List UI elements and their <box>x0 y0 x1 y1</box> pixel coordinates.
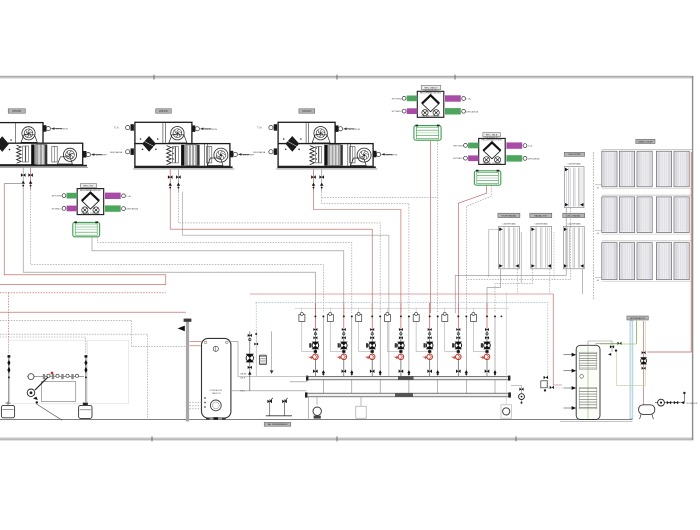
fan coil FC2 below HRV R2 <box>414 126 441 141</box>
svg-text:DESCARGA: DESCARGA <box>110 151 123 154</box>
expansion/safety assembly B <box>85 355 87 402</box>
pump group G5 on manifold <box>429 303 431 330</box>
svg-text:EXTRACC.: EXTRACC. <box>392 110 403 113</box>
svg-text:STOVE RADIAD.: STOVE RADIAD. <box>501 214 517 217</box>
HRV R3 (second roof recuperator) <box>479 138 506 164</box>
AHU U3 coil valve stack <box>313 170 315 192</box>
AHU U3 right upper port <box>335 125 338 131</box>
SAL. REFRIGERADOR label <box>264 422 291 426</box>
small tank T2 <box>79 405 92 418</box>
AHU U3 (third air handling unit) <box>278 122 335 143</box>
pipes from tank top to ACS riser <box>588 341 612 352</box>
solar collector row 3 <box>602 240 693 242</box>
expansion/safety assembly A <box>8 355 10 402</box>
svg-text:TAMPON: TAMPON <box>212 392 221 395</box>
AHU U1 label box <box>8 109 25 113</box>
AHU U3 left lower port <box>274 148 277 155</box>
AHU U2 (second air handling unit) <box>135 122 192 143</box>
pipe: fan coil FC1 return (dashed) to manifold group 2 <box>98 237 352 313</box>
solar field left connector pipe <box>593 152 595 300</box>
svg-text:INTERACUM.: INTERACUM. <box>210 389 223 392</box>
border frame top <box>0 76 693 78</box>
svg-text:EXTRACC.: EXTRACC. <box>52 207 63 210</box>
DHW storage tank with coils <box>576 345 600 419</box>
booster pump between collectors and DHW <box>511 386 522 405</box>
pipe: radiator RD0 drop <box>455 208 566 313</box>
HRV R2 (roof recuperator top centre) <box>417 91 444 117</box>
svg-text:DESCARGA: DESCARGA <box>466 110 478 113</box>
svg-text:SAL. REFRIGERADOR: SAL. REFRIGERADOR <box>268 423 288 426</box>
pipe: radiator RD2 drop to manifold group 7 (dashed) <box>495 269 533 313</box>
svg-text:T.I.A.: T.I.A. <box>528 145 533 148</box>
pipe: radiator RD1 drop to manifold group 7 <box>487 269 500 313</box>
small tank T1 <box>1 405 14 417</box>
HRV R2 label box <box>421 85 441 89</box>
svg-text:UTA VERDE P2: UTA VERDE P2 <box>485 136 498 139</box>
svg-text:RETORNO: RETORNO <box>392 98 403 100</box>
solar pump station right of tank <box>643 349 645 405</box>
solar collector row 2 <box>602 194 693 196</box>
svg-text:UTA P.B.: UTA P.B. <box>12 110 22 113</box>
svg-text:T.I.A.: T.I.A. <box>466 98 471 101</box>
pump group G3 on manifold <box>371 303 373 330</box>
pipe: radiator loop connectors <box>489 230 499 278</box>
AHU U1 right upper port arrow <box>43 125 46 132</box>
AHU U2 coil valve stack <box>169 170 171 192</box>
svg-text:RETORNO: RETORNO <box>52 196 63 198</box>
border frame right <box>692 76 694 440</box>
pipe: fan coil FC2 risers to manifold group 5 <box>430 140 432 313</box>
AHU U3 label box <box>299 109 315 113</box>
svg-text:T.I.A.: T.I.A. <box>114 127 120 130</box>
svg-text:UTA VERDE PB+1: UTA VERDE PB+1 <box>423 89 439 92</box>
DHW feed cluster (from headers) <box>553 375 562 386</box>
AHU U1 (first air handling unit, clipped at left) <box>0 123 43 144</box>
boiler room enclosure outlines <box>9 340 87 404</box>
radiator RD1 <box>498 213 520 217</box>
collector drain pump <box>313 407 321 415</box>
svg-text:CUA. ENTRE: CUA. ENTRE <box>568 153 581 156</box>
svg-text:CUA ENTRADA: CUA ENTRADA <box>503 223 517 226</box>
DHW tank lower coil <box>579 388 597 390</box>
riser duct (thick gray) <box>186 319 189 422</box>
tank top valves <box>610 345 612 348</box>
pipe: AHU U3 return to manifold group 4 (dashed) <box>322 192 409 313</box>
machine room floor line <box>0 418 633 420</box>
svg-text:BR.E: BR.E <box>241 378 246 380</box>
pump and fittings row <box>27 376 84 378</box>
circulation pump with curved pipe <box>27 389 35 397</box>
DHW feed valves <box>544 376 546 380</box>
svg-text:DESCARGA: DESCARGA <box>528 157 540 160</box>
svg-text:IMPULSION: IMPULSION <box>205 129 217 131</box>
solar pump <box>642 351 644 354</box>
svg-text:DESCARGA: DESCARGA <box>126 208 138 211</box>
pipe: AHU U2 return to manifold group 3 (dashed) <box>178 192 380 313</box>
fan coil FC3 below HRV R3 <box>474 171 500 185</box>
pipe: AHU U1 supply to manifold group 1 <box>23 190 315 313</box>
solar collector row 1 <box>602 148 693 150</box>
pipe: left risers to boiler room <box>8 293 10 353</box>
pipe: AHU U1 return to manifold group 1 (dashed) <box>31 190 324 313</box>
chiller outlet valves (SAL. REFRIGERADOR) <box>269 399 271 415</box>
buffer tank right side piping to collectors <box>231 342 308 377</box>
pipe: radiator right-side drops to main header <box>517 269 519 294</box>
buffer tank (INTERACUMULADOR) <box>202 338 231 418</box>
border frame bottom <box>0 438 693 440</box>
svg-text:ACUMULADOR: ACUMULADOR <box>630 317 645 320</box>
HRV R1 (recuperator below AHU U1) <box>77 189 104 215</box>
pipe: fan coil FC3 to manifold group 6 <box>458 185 486 313</box>
pipe: fan coil FC1 supply to manifold group 2 <box>92 237 344 313</box>
pipe: upper dashed control line <box>322 196 438 198</box>
pump group G2 on manifold <box>343 303 345 330</box>
AHU U2 label box <box>156 109 172 113</box>
DHW tank left ports <box>572 353 577 357</box>
pipe: AHU U1 third riser via left <box>0 184 166 285</box>
AHU U2 right upper port IMPULSION arrow <box>192 125 195 131</box>
AHU U3 left upper port <box>274 124 277 131</box>
svg-text:CUA ENTRADA: CUA ENTRADA <box>568 223 582 226</box>
svg-text:T.I.A.: T.I.A. <box>257 127 263 130</box>
svg-text:DESCARGA: DESCARGA <box>253 151 266 154</box>
svg-text:EXTRACC.: EXTRACC. <box>453 157 464 160</box>
svg-text:RADIAD. EST: RADIAD. EST <box>535 214 548 217</box>
solar field right connector pipe <box>647 152 691 352</box>
pipe: AHU U3 supply to manifold group 4 <box>314 192 401 313</box>
fan coil FC1 (green unit below HRV R1) <box>73 222 100 236</box>
svg-text:RETORNO: RETORNO <box>453 145 464 147</box>
svg-text:REC. P.B.: REC. P.B. <box>84 185 94 187</box>
skid frame rectangle <box>41 381 75 401</box>
svg-text:UTA P.2ª: UTA P.2ª <box>302 109 311 113</box>
DHW tank upper coil <box>579 352 597 354</box>
expansion line with arrow <box>271 331 273 371</box>
buffer tank inlet pipes from riser <box>190 341 202 343</box>
svg-text:CLORADOR: CLORADOR <box>686 402 698 405</box>
svg-text:BA.RE: BA.RE <box>241 372 248 375</box>
tank column 2 (teal drop) <box>255 331 257 376</box>
pump group G7 on manifold <box>486 303 488 330</box>
chlorinator pump row <box>655 402 681 404</box>
radiator RD3 <box>563 213 585 217</box>
ACS risers (teal duct + green pipe) <box>630 321 633 419</box>
svg-text:AMBIENTE: AMBIENTE <box>96 154 108 157</box>
sensor bus line over manifold <box>295 307 509 309</box>
pump group G4 on manifold <box>400 303 402 330</box>
svg-text:CUA ENTRADA: CUA ENTRADA <box>568 162 582 165</box>
svg-text:AMBIENTE: AMBIENTE <box>243 153 255 156</box>
return collector bar <box>307 393 509 397</box>
AHU U3 right lower port <box>373 151 376 158</box>
AHU U2 right lower port AMBIENTE arrow <box>230 151 233 158</box>
inline filter cylinder <box>259 355 266 364</box>
svg-text:PANEL SOLAR: PANEL SOLAR <box>638 140 653 143</box>
AHU U2 left upper port T.I.A. <box>131 124 134 131</box>
small pump under radiators <box>501 405 512 418</box>
svg-text:T.I.A.: T.I.A. <box>126 195 131 198</box>
solar collector field label <box>636 139 655 143</box>
pump group G6 on manifold <box>457 303 459 330</box>
AHU U2 left lower port DESCARGA <box>131 148 134 155</box>
collector drain drops <box>308 397 310 420</box>
HRV R3 label box <box>483 133 500 137</box>
svg-text:AMBIENTE: AMBIENTE <box>386 153 398 156</box>
buffer tank charge pump column <box>249 331 251 391</box>
pipe: main cold header (teal dashed) <box>255 302 547 374</box>
expansion vessel (horizontal) <box>639 405 655 415</box>
pipe: main hot header across plant <box>250 294 553 375</box>
drain diagonal <box>37 404 63 420</box>
supply collector bar <box>308 376 509 379</box>
ACUMULADOR label <box>627 316 648 320</box>
pipe: left zone horizontals <box>0 292 166 294</box>
radiator RD0 (upper, CUA ENTRE) <box>564 152 584 156</box>
svg-text:CUA ENTRADA: CUA ENTRADA <box>535 223 549 226</box>
HRV R1 label box <box>81 184 97 188</box>
svg-text:UTA P.1ª: UTA P.1ª <box>159 109 168 113</box>
pipe: AHU U2 supply to manifold group 3 <box>170 192 372 313</box>
pump group G1 on manifold <box>314 303 316 330</box>
AHU U1 coil valve stack <box>22 168 24 190</box>
svg-text:CIRC. RADIAD.: CIRC. RADIAD. <box>567 214 582 217</box>
radiator RD2 <box>530 213 552 217</box>
svg-text:IMPULSION: IMPULSION <box>348 129 360 131</box>
pipe: AHU U2 third drop <box>182 192 389 377</box>
svg-text:IMPULSION: IMPULSION <box>56 129 68 131</box>
AHU U1 right lower port arrow <box>83 151 86 158</box>
